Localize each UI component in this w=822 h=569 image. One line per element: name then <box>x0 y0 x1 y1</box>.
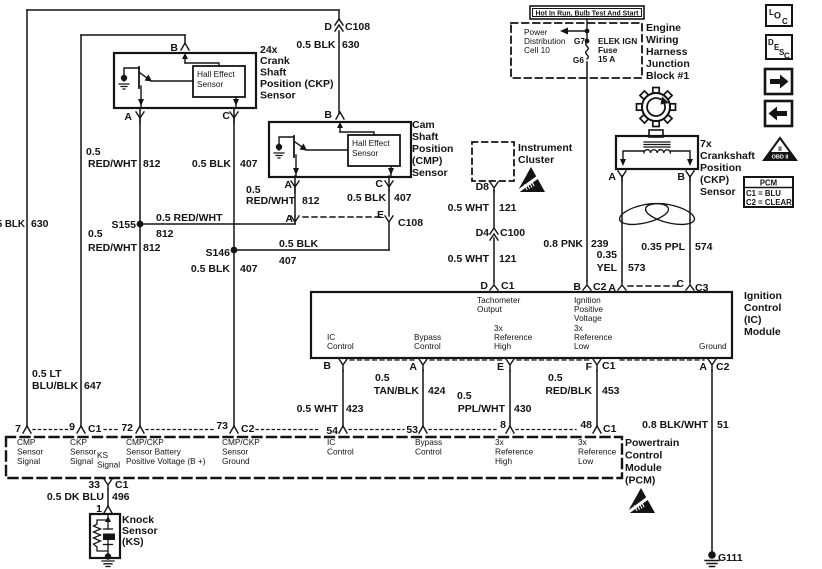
ESD symbol PCM <box>627 488 655 513</box>
svg-text:C1: C1 <box>603 423 617 435</box>
svg-text:Shaft: Shaft <box>260 67 287 79</box>
svg-text:3x: 3x <box>578 437 588 447</box>
wire 121 from instrument cluster D8 to C100 <box>493 190 495 227</box>
wire 812 CMP pin A drop to C108 A <box>294 176 296 216</box>
PCM pin 73 <box>230 426 238 433</box>
timing gear symbol <box>637 88 676 127</box>
wire 430 ICM E to PCM 8 <box>509 370 511 426</box>
ICM bottom pin E <box>506 359 514 371</box>
7x crankshaft position sensor CKP <box>616 130 698 181</box>
ICM top pin B <box>583 281 591 290</box>
svg-text:7: 7 <box>15 423 21 435</box>
svg-text:Sensor: Sensor <box>412 167 448 179</box>
svg-text:D: D <box>480 280 488 292</box>
PCM pin 53 <box>419 426 427 433</box>
PCM pin 48 <box>593 426 601 433</box>
svg-text:Wiring: Wiring <box>646 34 679 46</box>
svg-text:D: D <box>324 21 332 33</box>
svg-text:C100: C100 <box>500 227 525 239</box>
svg-text:51: 51 <box>717 419 729 431</box>
svg-text:YEL: YEL <box>597 262 618 274</box>
svg-text:Hot In Run, Bulb Test And Star: Hot In Run, Bulb Test And Start <box>536 8 639 17</box>
svg-text:C1: C1 <box>501 280 515 292</box>
svg-text:E: E <box>497 361 504 373</box>
svg-text:C: C <box>676 278 684 290</box>
svg-text:C3: C3 <box>695 282 709 294</box>
svg-text:G111: G111 <box>718 552 743 564</box>
svg-text:PCM: PCM <box>760 179 777 188</box>
svg-text:A: A <box>284 179 292 191</box>
svg-text:(CKP): (CKP) <box>700 174 729 186</box>
nav icon LOC <box>766 5 792 26</box>
svg-text:O: O <box>774 11 781 21</box>
mounting tab <box>649 130 663 137</box>
svg-text:C2 = CLEAR: C2 = CLEAR <box>746 198 792 207</box>
svg-text:B: B <box>677 171 685 183</box>
KS piezo element <box>104 528 113 530</box>
svg-text:0.5 BLK: 0.5 BLK <box>191 263 231 275</box>
PCM dotted 7-9 <box>33 429 75 431</box>
svg-text:Sensor: Sensor <box>197 79 224 89</box>
svg-text:A: A <box>608 282 616 294</box>
svg-text:Crank: Crank <box>260 55 290 67</box>
svg-text:C: C <box>782 17 788 26</box>
coil left lead <box>623 151 644 161</box>
wire 630 left vertical to PCM pin 7 <box>26 10 28 426</box>
splice S155 <box>137 221 144 228</box>
svg-text:0.5: 0.5 <box>88 228 103 240</box>
svg-text:430: 430 <box>514 403 532 415</box>
svg-text:A: A <box>699 361 707 373</box>
ICM bottom pin A (ground) <box>708 359 716 371</box>
24x crankshaft position sensor CKP <box>114 43 256 123</box>
svg-text:B: B <box>324 109 332 121</box>
PCM dotted 9-72 <box>104 429 120 431</box>
svg-text:Control: Control <box>327 447 354 457</box>
junction dot <box>585 29 590 34</box>
svg-text:BLU/BLK: BLU/BLK <box>32 380 78 392</box>
svg-text:(PCM): (PCM) <box>625 475 655 487</box>
svg-text:Signal: Signal <box>97 460 120 470</box>
svg-text:407: 407 <box>279 255 297 267</box>
svg-text:453: 453 <box>602 385 620 397</box>
svg-text:Cluster: Cluster <box>518 154 554 166</box>
svg-text:630: 630 <box>31 218 49 230</box>
svg-text:B: B <box>573 281 581 293</box>
PCM connector legend box <box>744 177 793 207</box>
svg-text:0.5: 0.5 <box>457 390 472 402</box>
ICM top pin D <box>490 281 498 290</box>
svg-text:73: 73 <box>216 420 228 432</box>
svg-text:PPL/WHT: PPL/WHT <box>458 403 506 415</box>
svg-text:Control: Control <box>414 341 441 351</box>
svg-text:D4: D4 <box>476 227 490 239</box>
svg-text:D8: D8 <box>476 181 490 193</box>
svg-text:Sensor: Sensor <box>17 447 44 457</box>
svg-text:53: 53 <box>406 424 418 436</box>
svg-text:407: 407 <box>240 158 258 170</box>
svg-text:0.5: 0.5 <box>548 372 563 384</box>
svg-text:Voltage: Voltage <box>574 313 602 323</box>
svg-text:0.35 PPL: 0.35 PPL <box>641 241 685 253</box>
svg-text:OBD II: OBD II <box>772 155 789 161</box>
svg-text:Module: Module <box>625 462 662 474</box>
svg-text:C: C <box>784 52 790 61</box>
svg-text:Block #1: Block #1 <box>646 70 689 82</box>
svg-text:C1 = BLU: C1 = BLU <box>746 189 781 198</box>
svg-text:CMP/CKP: CMP/CKP <box>222 437 260 447</box>
power distribution junction block dashed box <box>511 23 642 78</box>
svg-text:Sensor: Sensor <box>700 186 736 198</box>
svg-text:0.5 BLK: 0.5 BLK <box>192 158 232 170</box>
svg-text:S146: S146 <box>205 247 230 259</box>
pin A glyph <box>618 171 626 181</box>
svg-text:8: 8 <box>500 419 506 431</box>
svg-text:A: A <box>285 213 293 225</box>
connector C108 pin A chevron <box>291 216 299 222</box>
twisted pair symbol <box>618 200 671 229</box>
pickup coil windings <box>644 150 670 153</box>
knock sensor KS box <box>90 514 120 567</box>
PCM dashed box <box>6 437 622 478</box>
svg-text:Cam: Cam <box>412 119 435 131</box>
wire 630 top horizontal bus <box>27 9 339 11</box>
pickup coil core lines <box>644 142 670 147</box>
wire 812 riser to C108 pin A <box>294 216 296 224</box>
svg-text:Low: Low <box>578 456 594 466</box>
svg-text:0.5: 0.5 <box>375 372 390 384</box>
svg-text:C108: C108 <box>398 217 423 229</box>
hot in run fuse label box <box>530 6 644 19</box>
svg-text:574: 574 <box>695 241 713 253</box>
svg-text:CMP: CMP <box>17 437 36 447</box>
svg-text:RED/WHT: RED/WHT <box>88 158 138 170</box>
svg-text:0.8 BLK/WHT: 0.8 BLK/WHT <box>642 419 709 431</box>
KS internal top lead with up arrow <box>107 514 109 529</box>
PCM dotted 54-53 <box>349 429 404 431</box>
svg-text:0.8 PNK: 0.8 PNK <box>543 238 583 250</box>
svg-text:High: High <box>494 341 511 351</box>
svg-text:0.5 BLK: 0.5 BLK <box>296 39 336 51</box>
svg-text:Module: Module <box>744 326 781 338</box>
wire stub from fuse label box <box>586 19 588 31</box>
wire 496 PCM 33 to knock sensor <box>107 489 109 506</box>
wire 407 riser to C108 pin E <box>388 222 390 250</box>
svg-text:E: E <box>377 209 384 221</box>
svg-text:Reference: Reference <box>578 447 617 457</box>
wire 453 ICM F to PCM 48 <box>596 370 598 426</box>
svg-text:0.35: 0.35 <box>597 249 618 261</box>
svg-text:Control: Control <box>415 447 442 457</box>
wire 407 from 24x CKP pin C to PCM pin 73 <box>233 108 235 426</box>
svg-text:Hall Effect: Hall Effect <box>197 69 235 79</box>
wire 407 CMP pin C drop to C108 E <box>388 176 390 216</box>
svg-text:0.5 WHT: 0.5 WHT <box>448 253 490 265</box>
svg-text:812: 812 <box>143 158 161 170</box>
svg-text:15 A: 15 A <box>598 54 615 64</box>
wire 239 from fuse G6 to ICM pin B <box>586 62 588 281</box>
wire 407 splice branch S146 horizontal <box>234 249 389 251</box>
wire 647 horizontal <box>81 34 185 36</box>
svg-text:812: 812 <box>143 242 161 254</box>
wire 812 from 24x CKP pin A to PCM pin 72 <box>139 108 141 426</box>
ICM bottom pin A <box>419 359 427 371</box>
ICM bottom pin F <box>593 359 601 371</box>
svg-text:CMP/CKP: CMP/CKP <box>126 437 164 447</box>
ICM bottom dashed E-F <box>517 359 590 361</box>
svg-text:G6: G6 <box>573 55 584 65</box>
svg-text:Instrument: Instrument <box>518 142 573 154</box>
svg-text:Control: Control <box>625 450 662 462</box>
connector C108 pin D (double chevron) <box>335 19 343 31</box>
svg-text:C: C <box>375 178 383 190</box>
svg-text:812: 812 <box>156 228 174 240</box>
svg-text:(CMP): (CMP) <box>412 155 442 167</box>
svg-text:407: 407 <box>394 192 412 204</box>
wire 424 ICM A to PCM 53 <box>422 370 424 426</box>
svg-text:High: High <box>495 456 512 466</box>
svg-text:RED/BLK: RED/BLK <box>545 385 592 397</box>
svg-text:IC: IC <box>327 437 335 447</box>
svg-text:Engine: Engine <box>646 22 681 34</box>
KS internal resistor <box>94 520 109 551</box>
wire 121 from C100 to ICM pin D <box>493 238 495 281</box>
svg-text:A: A <box>409 361 417 373</box>
svg-text:Cell 10: Cell 10 <box>524 45 550 55</box>
svg-text:33: 33 <box>88 479 100 491</box>
svg-text:630: 630 <box>342 39 360 51</box>
coil right lead <box>670 151 690 161</box>
ICM top pin C <box>686 281 694 290</box>
svg-text:Ground: Ground <box>222 456 250 466</box>
svg-text:Powertrain: Powertrain <box>625 437 679 449</box>
svg-text:B: B <box>170 42 178 54</box>
svg-text:C2: C2 <box>716 361 730 373</box>
svg-text:RED/WHT: RED/WHT <box>88 242 138 254</box>
svg-text:Position (CKP): Position (CKP) <box>260 78 334 90</box>
svg-text:C: C <box>222 110 230 122</box>
svg-text:407: 407 <box>240 263 258 275</box>
svg-text:Sensor Battery: Sensor Battery <box>126 447 182 457</box>
svg-text:Control: Control <box>327 341 354 351</box>
nav icon DESC <box>766 35 792 59</box>
PCM dotted 72-73 <box>146 429 214 431</box>
svg-text:5 BLK: 5 BLK <box>0 219 25 230</box>
svg-text:0.5 RED/WHT: 0.5 RED/WHT <box>156 212 223 224</box>
svg-text:Sensor: Sensor <box>222 447 249 457</box>
wire 630 drop to connector C108 D <box>338 10 340 19</box>
ICM bottom dashed A-E <box>430 359 503 361</box>
splice S146 <box>231 247 238 254</box>
nav icon arrow left <box>765 101 792 126</box>
KS case ground <box>105 553 111 559</box>
svg-text:9: 9 <box>69 421 75 433</box>
svg-text:A: A <box>608 171 616 183</box>
svg-text:Positive Voltage (B +): Positive Voltage (B +) <box>126 456 206 466</box>
svg-text:C2: C2 <box>241 423 255 435</box>
wire 647 vertical to PCM pin 9 <box>80 35 82 426</box>
svg-text:Hall Effect: Hall Effect <box>352 138 390 148</box>
svg-text:121: 121 <box>499 253 517 265</box>
svg-text:(IC): (IC) <box>744 314 762 326</box>
connector C100 pin D4 (double chevron) <box>490 228 498 240</box>
PCM pin 8 <box>506 426 514 433</box>
svg-text:A: A <box>124 111 132 123</box>
svg-text:0.5: 0.5 <box>86 146 101 158</box>
svg-text:647: 647 <box>84 380 102 392</box>
OBD II symbol <box>764 138 796 161</box>
svg-text:48: 48 <box>580 419 592 431</box>
instrument cluster dashed box <box>472 142 514 181</box>
svg-text:TAN/BLK: TAN/BLK <box>374 385 420 397</box>
svg-text:C1: C1 <box>602 360 616 372</box>
svg-text:II: II <box>778 146 782 153</box>
svg-text:Signal: Signal <box>70 456 93 466</box>
svg-text:54: 54 <box>326 425 338 437</box>
svg-text:Sensor: Sensor <box>260 90 296 102</box>
svg-text:Output: Output <box>477 304 503 314</box>
PCM pin 9 <box>77 426 85 433</box>
PCM dotted 8-48 <box>516 429 576 431</box>
knock sensor pin 1 <box>104 506 112 513</box>
svg-text:573: 573 <box>628 262 646 274</box>
cam shaft position sensor CMP <box>269 112 411 192</box>
svg-text:Sensor: Sensor <box>70 447 97 457</box>
wire 630 from C108 D to CMP sensor pin B <box>338 31 340 113</box>
svg-text:B: B <box>323 360 331 372</box>
connector C108 A-E dashed boundary <box>303 216 381 218</box>
svg-text:812: 812 <box>302 195 320 207</box>
svg-text:Position: Position <box>412 143 453 155</box>
svg-text:496: 496 <box>112 491 130 503</box>
power feed arrow <box>567 30 588 32</box>
PCM pin 54 <box>339 426 347 433</box>
ICM top dashed A to C <box>628 285 682 287</box>
PCM pin 72 <box>136 426 144 433</box>
PCM dotted 73-54 <box>256 429 320 431</box>
svg-text:0.5 BLK: 0.5 BLK <box>347 192 387 204</box>
ICM bottom dashed F-A <box>620 359 704 361</box>
svg-text:7x: 7x <box>700 138 712 150</box>
svg-text:Ignition: Ignition <box>744 290 782 302</box>
PCM dotted 53-8 <box>429 429 497 431</box>
nav icon arrow right <box>765 69 792 94</box>
svg-text:3x: 3x <box>495 437 505 447</box>
svg-text:Control: Control <box>744 302 781 314</box>
connector C108 pin E chevron <box>385 216 393 222</box>
fuse ELEK IGN 15A <box>586 31 588 42</box>
svg-text:(KS): (KS) <box>122 536 144 548</box>
wire 574 from 7x CKP pin B to ICM pin C <box>689 176 691 281</box>
svg-text:Bypass: Bypass <box>415 437 442 447</box>
svg-text:Position: Position <box>700 162 741 174</box>
svg-text:0.5 WHT: 0.5 WHT <box>297 403 339 415</box>
svg-text:RED/WHT: RED/WHT <box>246 195 296 207</box>
PCM pin 33 <box>104 479 112 489</box>
svg-text:C1: C1 <box>88 423 102 435</box>
svg-text:C1: C1 <box>115 479 129 491</box>
wire 573 from 7x CKP pin A to ICM pin A <box>621 176 623 281</box>
svg-text:72: 72 <box>121 422 133 434</box>
svg-text:G7: G7 <box>574 36 585 46</box>
svg-text:424: 424 <box>428 385 446 397</box>
svg-text:C108: C108 <box>345 21 370 33</box>
ICM bottom pin B <box>339 359 347 371</box>
wire 423 ICM B to PCM 54 <box>342 370 344 426</box>
pin B glyph <box>686 171 694 181</box>
7x sensor box <box>616 136 698 169</box>
svg-text:Crankshaft: Crankshaft <box>700 150 755 162</box>
ICM bottom dashed B-A <box>350 359 416 361</box>
svg-text:Harness: Harness <box>646 46 688 58</box>
svg-text:S155: S155 <box>111 219 136 231</box>
ESD symbol instrument cluster <box>517 167 545 192</box>
wire 51 ICM ground A/C2 to G111 <box>711 370 713 552</box>
instrument cluster pin D8 <box>490 182 498 192</box>
svg-text:Shaft: Shaft <box>412 131 439 143</box>
svg-text:KS: KS <box>97 450 109 460</box>
svg-text:Sensor: Sensor <box>352 148 379 158</box>
svg-text:0.5 DK BLU: 0.5 DK BLU <box>47 491 104 503</box>
svg-text:Ground: Ground <box>699 341 727 351</box>
svg-text:F: F <box>586 361 593 373</box>
ignition control module ICM box <box>311 292 732 358</box>
svg-text:Junction: Junction <box>646 58 690 70</box>
svg-text:Low: Low <box>574 341 590 351</box>
ground G111 <box>708 551 716 559</box>
wire 812 splice branch S155 horizontal <box>140 223 295 225</box>
svg-text:0.5 WHT: 0.5 WHT <box>448 202 490 214</box>
svg-text:C2: C2 <box>593 281 607 293</box>
node G7 <box>585 39 590 44</box>
svg-text:Signal: Signal <box>17 456 40 466</box>
svg-text:0.5 BLK: 0.5 BLK <box>279 238 319 250</box>
PCM pin 7 <box>23 426 31 433</box>
ICM top pin A <box>618 281 626 290</box>
svg-text:121: 121 <box>499 202 517 214</box>
wire 647 stub to 24x CKP sensor pin B <box>184 35 186 43</box>
svg-text:Reference: Reference <box>495 447 534 457</box>
svg-text:423: 423 <box>346 403 364 415</box>
svg-text:CKP: CKP <box>70 437 88 447</box>
svg-text:0.5 LT: 0.5 LT <box>32 368 62 380</box>
